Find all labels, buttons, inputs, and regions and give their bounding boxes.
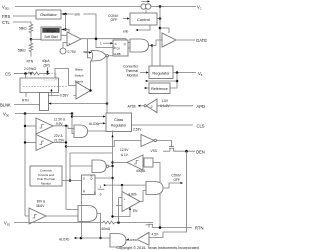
- node divider tap: [30, 38, 33, 41]
- blanking box: [40, 93, 49, 111]
- svg-text:& 1V: & 1V: [121, 153, 129, 157]
- node soft start line: [64, 28, 66, 30]
- label converter thermal monitor: [123, 65, 148, 78]
- flip-flop: [113, 40, 128, 56]
- comparator 4.5V: [137, 232, 159, 245]
- wire control output: [157, 18, 160, 20]
- resistor 58k lower: [18, 39, 33, 56]
- wire 4.5V output APDb: [126, 237, 137, 242]
- svg-text:0.55V: 0.55V: [60, 94, 69, 98]
- wire BLNK: [14, 104, 40, 106]
- svg-text:Converter: Converter: [123, 65, 139, 69]
- wire AND out to driver: [152, 40, 162, 46]
- svg-text:OFF: OFF: [111, 18, 118, 22]
- wire class reg bus down: [112, 131, 114, 217]
- wire comparator lower input: [49, 95, 77, 97]
- svg-text:+: +: [68, 41, 70, 45]
- net RTN below network: [22, 93, 29, 103]
- svg-text:+: +: [124, 197, 126, 201]
- current mirror on rail: [141, 0, 151, 9]
- wire reference output arrow: [144, 87, 149, 89]
- node PWM output: [89, 89, 91, 91]
- svg-text:Blank: Blank: [75, 67, 83, 71]
- svg-text:60mΩ: 60mΩ: [102, 227, 111, 231]
- pin VSS: [4, 221, 10, 227]
- svg-text:RTN: RTN: [27, 59, 34, 63]
- svg-text:22V &: 22V &: [54, 134, 64, 138]
- wire blanking arrow up: [50, 89, 52, 96]
- wire oscillator clock to FF CK: [61, 14, 113, 48]
- wire VDD1 rail: [15, 6, 141, 8]
- svg-text:BLNK: BLNK: [0, 103, 11, 108]
- svg-text:APD: APD: [197, 104, 206, 109]
- current source 40uA arrow: [42, 59, 50, 75]
- voltage source 0.75V: [60, 43, 89, 55]
- svg-text:Switch: Switch: [75, 73, 84, 77]
- wire regulator to VB: [173, 72, 196, 74]
- wire soft start output to error amp: [61, 30, 69, 34]
- gate driver buffer: [162, 33, 176, 47]
- svg-text:Class: Class: [114, 118, 123, 122]
- AND gate pwm: [130, 39, 149, 52]
- svg-text:21.25V: 21.25V: [54, 139, 65, 143]
- wire CS into network: [25, 74, 27, 79]
- wire UVLO output to ALOX AND: [53, 126, 74, 129]
- svg-text:58kΩ: 58kΩ: [18, 48, 26, 52]
- svg-text:CTL: CTL: [2, 20, 11, 25]
- wire common circuits to latch S: [62, 180, 82, 182]
- AND gate ALOXb: [74, 122, 106, 138]
- wire OVLO output down to PoE logic: [53, 142, 66, 144]
- svg-text:VSS: VSS: [151, 149, 157, 153]
- regulator box: [149, 66, 173, 79]
- wire sense line to ILIM FET: [115, 222, 149, 224]
- svg-text:R: R: [83, 190, 85, 194]
- svg-text:CLS: CLS: [197, 123, 205, 128]
- wire ILIM output to AND: [140, 191, 146, 202]
- label APDb output: [128, 105, 147, 109]
- arrowhead into soft start: [62, 28, 65, 30]
- svg-text:enb: enb: [123, 30, 129, 34]
- wire latch Q to bus: [95, 177, 113, 179]
- svg-text:FRS: FRS: [2, 14, 11, 19]
- svg-text:2.53V: 2.53V: [133, 127, 142, 131]
- node enb junction: [64, 13, 66, 15]
- svg-text:D: D: [115, 42, 117, 46]
- wire branch to driver top: [160, 28, 169, 33]
- svg-text:S: S: [83, 176, 85, 180]
- svg-text:ALOXb: ALOXb: [89, 122, 100, 126]
- svg-text:12.5V: 12.5V: [120, 148, 129, 152]
- label CONV OFF input: [108, 14, 130, 22]
- node on rail: [159, 5, 162, 8]
- PWM comparator 0.55V: [76, 82, 91, 99]
- wire branch to VSS inverter: [66, 141, 141, 147]
- wire comparator output to bus: [113, 162, 128, 164]
- wire rail to VC: [151, 6, 196, 8]
- SR latch: [82, 175, 96, 195]
- svg-text:RTN: RTN: [195, 226, 203, 231]
- wire bias arrow left: [145, 80, 177, 82]
- svg-text:Thermal: Thermal: [126, 69, 139, 73]
- wire enb down to soft start: [65, 14, 67, 30]
- big AND gate poe pg: [78, 206, 102, 240]
- label enb input to NOR: [85, 51, 92, 53]
- op-amp error amplifier: [67, 32, 81, 46]
- svg-text:380µA: 380µA: [46, 29, 56, 33]
- wire VB down to reference: [170, 73, 177, 89]
- svg-text:38.6V: 38.6V: [36, 204, 45, 208]
- svg-text:ALOXb: ALOXb: [59, 237, 70, 241]
- label CONV OFF output: [163, 173, 183, 188]
- AND gate APD out: [110, 234, 128, 248]
- svg-text:CLRB: CLRB: [114, 52, 121, 56]
- svg-text:APDb: APDb: [129, 238, 137, 242]
- svg-text:OFF: OFF: [174, 178, 180, 182]
- svg-text:-: -: [68, 34, 69, 38]
- wire CLS: [132, 124, 194, 126]
- svg-text:RTN: RTN: [22, 99, 29, 103]
- node clock crossing: [95, 37, 98, 40]
- svg-text:enb: enb: [84, 50, 90, 54]
- wire FF Q to AND: [128, 47, 130, 49]
- wire error amp output: [81, 39, 130, 43]
- wire OVLO input: [25, 142, 36, 144]
- pin VC: [197, 4, 202, 10]
- svg-text:2: 2: [151, 105, 153, 109]
- wire PWM comparator output up to NOR: [90, 61, 92, 91]
- svg-text:enb: enb: [75, 13, 81, 17]
- wire select to ILIM and AND: [104, 184, 107, 186]
- svg-text:APDb: APDb: [128, 105, 137, 109]
- resistor 60mOhm: [102, 221, 115, 231]
- wire DEN net down to 4.5V comparator: [149, 151, 187, 237]
- svg-text:Copyright © 2015, Texas Instru: Copyright © 2015, Texas Instruments Inco…: [117, 246, 199, 250]
- op-amp ILIM: [122, 192, 140, 212]
- resistor 58k upper: [19, 22, 33, 37]
- switch network box: [20, 73, 68, 92]
- wire comp branch down to NOR: [88, 39, 92, 58]
- pin VB: [198, 71, 203, 77]
- wire APD pin to comparator: [157, 105, 193, 107]
- svg-text:Monitor: Monitor: [127, 74, 139, 78]
- svg-text:Monitor: Monitor: [41, 182, 51, 186]
- wire latch R down to ALOXb net: [81, 195, 83, 239]
- svg-text:EN: EN: [133, 209, 138, 213]
- common circuits box: [30, 166, 62, 186]
- svg-text:(2R): (2R): [44, 64, 50, 68]
- svg-text:11.5V &: 11.5V &: [54, 118, 66, 122]
- wire FRS to oscillator: [13, 15, 36, 17]
- wire network riser to PWM comparator: [55, 69, 76, 86]
- wire CLRB net down to class regulator: [106, 56, 108, 113]
- svg-text:2.079kΩ: 2.079kΩ: [24, 67, 37, 71]
- AND gate conv off: [146, 182, 163, 195]
- svg-text:CONV: CONV: [172, 173, 182, 177]
- svg-text:CONV: CONV: [108, 14, 119, 18]
- node driver branch: [159, 27, 162, 30]
- label constant 1 into D: [100, 42, 113, 46]
- label blank switch matrix: [75, 67, 84, 83]
- wire DEN: [174, 150, 196, 152]
- wire VSS to FET: [163, 150, 170, 152]
- svg-text:DEN: DEN: [196, 149, 205, 154]
- comparator 12.5V 1V: [120, 148, 143, 170]
- oscillator box: [36, 10, 61, 19]
- svg-text:0.75V: 0.75V: [68, 50, 77, 54]
- wire 39V input: [25, 215, 29, 217]
- wire VDD: [15, 113, 72, 115]
- wire mirror into control: [145, 9, 147, 13]
- transistor DEN FET: [169, 147, 174, 152]
- svg-text:58kΩ: 58kΩ: [19, 26, 27, 30]
- wire class bus to latch area: [70, 152, 113, 154]
- comparator UVLO 11.5V 9.9V: [36, 118, 66, 135]
- label enb from control: [123, 25, 150, 34]
- svg-text:Oscillator: Oscillator: [40, 12, 57, 17]
- svg-text:1.5V: 1.5V: [162, 99, 169, 103]
- inverter VSS driver: [141, 135, 157, 153]
- comparator OVLO 22V 21.25V: [36, 134, 65, 151]
- wire down to latch: [69, 153, 71, 181]
- wire blanking to class regulator: [49, 103, 108, 105]
- top NAND gate poe good: [70, 160, 113, 173]
- arrowhead enb into oscillator: [62, 13, 65, 15]
- label ILIM select 1/0: [94, 185, 105, 196]
- svg-text:Regulator: Regulator: [152, 70, 170, 75]
- comparator APD 1.5V/1.2V: [146, 98, 173, 112]
- label ALOXb lower with wire: [59, 237, 110, 242]
- wire CTL to divider: [13, 21, 31, 23]
- wire CS node: [40, 73, 51, 75]
- wire supply bus to regulator: [159, 7, 161, 67]
- wire current sense tap up to ILIM: [118, 198, 120, 223]
- svg-text:4.5V: 4.5V: [152, 232, 159, 236]
- wire ILIM inputs: [119, 197, 123, 199]
- wire VDD to class regulator input: [72, 116, 103, 118]
- svg-text:CS: CS: [5, 72, 11, 77]
- wire UVLO input: [25, 125, 36, 127]
- svg-text:Control: Control: [137, 17, 150, 22]
- wire CS: [14, 73, 28, 75]
- svg-text:Reference: Reference: [151, 87, 168, 91]
- svg-text:39V &: 39V &: [37, 199, 47, 203]
- svg-text:ILIMb: ILIMb: [129, 193, 137, 197]
- wire divider tap to error amp: [31, 35, 67, 39]
- svg-text:-: -: [124, 205, 125, 209]
- svg-text:1: 1: [100, 42, 102, 46]
- wire RTN: [152, 227, 192, 229]
- svg-text:1: 1: [100, 185, 102, 189]
- svg-text:40µA: 40µA: [42, 59, 50, 63]
- pin VDD: [3, 112, 9, 118]
- comparator 39V 38.6V: [29, 199, 46, 224]
- transistor ILIM FET: [146, 223, 154, 228]
- svg-text:GATE: GATE: [196, 38, 207, 43]
- reference box: [149, 83, 170, 94]
- svg-text:Soft Start: Soft Start: [44, 35, 57, 39]
- soft start box: [41, 27, 61, 40]
- wire driver to GATE: [176, 39, 195, 41]
- svg-text:Regulator: Regulator: [111, 124, 127, 128]
- wire 39V output to AND: [46, 215, 78, 217]
- NOR gate CLRB: [91, 51, 113, 62]
- wire 400uA down to RTN: [153, 163, 160, 228]
- svg-text:0: 0: [100, 193, 102, 197]
- label EN: [111, 207, 138, 218]
- wire inverter to FET gate: [157, 141, 172, 147]
- wire AND out down to regulator: [151, 46, 153, 67]
- class regulator box: [106, 113, 132, 132]
- wire VSS line: [14, 222, 103, 224]
- label enb: [74, 12, 84, 17]
- pin VDD1 top left: [2, 4, 10, 10]
- wire VDD sense bus: [24, 114, 26, 217]
- current source 400uA box: [136, 158, 153, 173]
- control box: [130, 13, 157, 25]
- wire VDD branch to class reg and ALOX: [72, 114, 74, 134]
- svg-text:400µA: 400µA: [136, 169, 146, 173]
- svg-text:CK: CK: [116, 46, 120, 50]
- wire AND output: [149, 45, 153, 47]
- resistor 2.079k: [24, 67, 40, 75]
